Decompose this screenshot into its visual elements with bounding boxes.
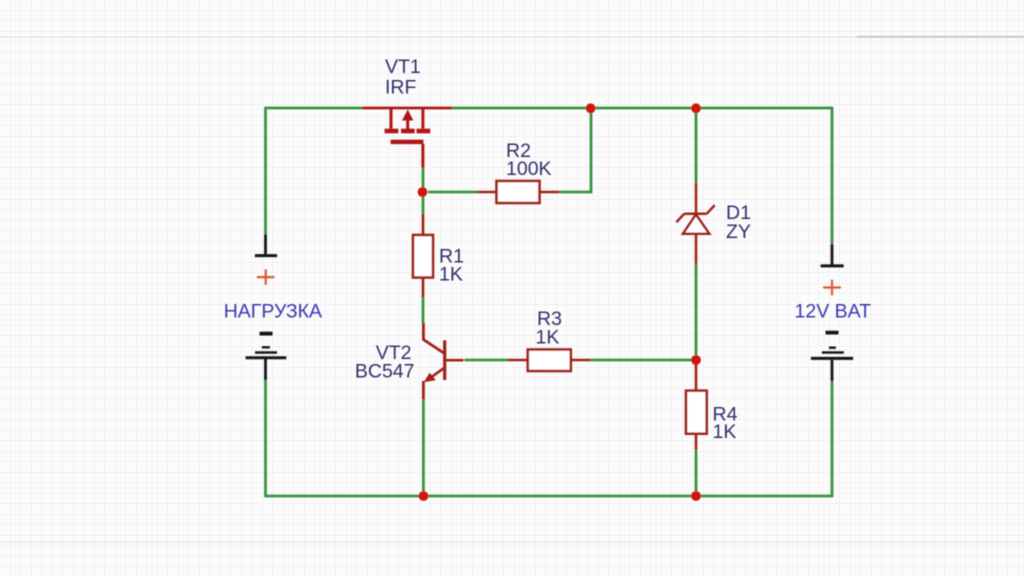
wire R3 to node B	[591, 359, 696, 362]
wire R1 to collector	[422, 298, 425, 324]
wire top rail to D1	[695, 108, 698, 183]
svg-text:12V BAT: 12V BAT	[795, 301, 872, 323]
svg-text:НАГРУЗКА: НАГРУЗКА	[224, 301, 322, 323]
svg-text:1K: 1K	[536, 326, 560, 348]
plus sign GB1	[257, 269, 275, 285]
wire right vertical drop	[831, 107, 834, 245]
transistor VT2 (BC547)	[423, 323, 463, 400]
wire top rail right (green)	[452, 107, 832, 110]
svg-text:1K: 1K	[713, 421, 737, 443]
node junction dot bottom rail at R4	[691, 491, 701, 501]
wire left battery to bottom rail	[264, 380, 267, 497]
battery GB2 (12V BAT)	[811, 244, 853, 381]
wire node A to R1	[422, 192, 425, 214]
wire base to R3	[464, 359, 507, 362]
diode D1 (zener)	[676, 183, 714, 264]
wire left vertical drop	[264, 107, 267, 235]
resistor R4	[686, 363, 707, 450]
node A junction dot	[418, 187, 428, 197]
resistor R3	[507, 350, 590, 372]
node junction dot bottom rail at emitter	[419, 491, 429, 501]
wire bottom rail	[266, 495, 833, 498]
wire R4 to bottom rail	[695, 450, 698, 496]
wire top rail left (green)	[266, 107, 363, 110]
wire D1 to node B	[695, 264, 698, 360]
transistor VT1 (MOSFET)	[362, 108, 452, 168]
wire emitter down	[422, 400, 425, 497]
wire R2 right up to top rail	[559, 108, 591, 192]
node B junction dot	[691, 355, 701, 365]
resistor R2	[478, 181, 559, 203]
svg-text:BC547: BC547	[355, 360, 415, 382]
battery GB1 (НАГРУЗКА)	[246, 235, 287, 381]
svg-text:ZY: ZY	[726, 221, 751, 243]
svg-text:VT1: VT1	[385, 56, 421, 78]
wire gate to node A	[422, 168, 425, 192]
resistor R1	[413, 214, 433, 298]
node junction dot top rail at R2 branch	[586, 103, 596, 113]
node junction dot top rail at D1 branch	[691, 103, 701, 113]
svg-text:IRF: IRF	[385, 77, 417, 99]
wire right battery to bottom rail	[831, 381, 834, 497]
plus sign GB2	[823, 280, 841, 296]
wire node A to R2	[428, 191, 478, 194]
svg-text:1K: 1K	[439, 264, 463, 286]
svg-text:100K: 100K	[506, 158, 552, 180]
